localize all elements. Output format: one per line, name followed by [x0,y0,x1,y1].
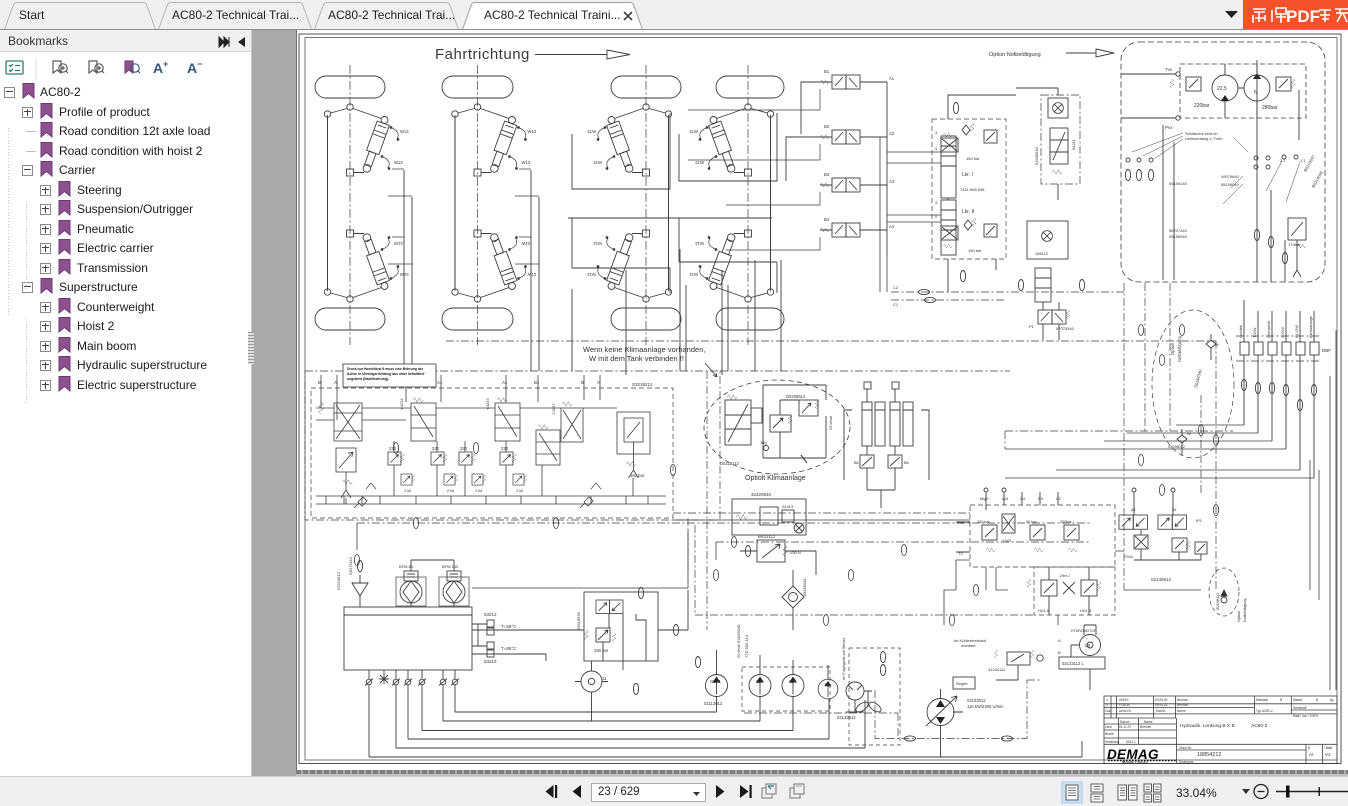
svg-text:02133012: 02133012 [967,698,986,703]
svg-text:53518946: 53518946 [576,611,581,630]
svg-text:TvxPvx: TvxPvx [1165,67,1173,130]
svg-text:Verteilung: Verteilung [1105,740,1119,744]
svg-text:BR23112: BR23112 [758,534,776,539]
svg-text:Zust: Zust [1105,709,1111,713]
svg-text:V50-N: V50-N [790,551,801,555]
svg-text:W: W [1215,342,1219,347]
svg-text:04096012: 04096012 [1168,445,1185,449]
svg-text:Brenner: Brenner [1177,698,1189,702]
svg-text:BFM 160: BFM 160 [442,564,459,569]
svg-text:BFM 80: BFM 80 [399,564,414,569]
svg-text:220bar: 220bar [1194,103,1210,109]
svg-text:#160H: #160H [1119,698,1129,702]
svg-text:Notbeldtigung: Notbeldtigung [1243,599,1247,622]
svg-text:Name: Name [1177,709,1186,713]
svg-text:156112: 156112 [1035,251,1049,256]
svg-text:200 bar: 200 bar [977,520,991,524]
svg-text:4907964055159040 55159140: 4907964055159040 55159140 56707440551590… [1169,158,1306,239]
svg-text:Aend-Nr: Aend-Nr [1119,709,1132,713]
svg-text:32420840: 32420840 [751,492,772,497]
svg-text:02132912: 02132912 [837,715,856,720]
svg-text:−: − [197,59,202,69]
svg-text:Wenn keine Klimaanlage vorhand: Wenn keine Klimaanlage vorhanden, [583,345,705,354]
svg-text:Blatt / von / 100%: Blatt / von / 100% [1293,714,1318,718]
svg-text:W: W [1187,431,1191,436]
svg-text:Option: Option [1237,611,1241,622]
svg-text:montiert: montiert [961,643,976,648]
svg-text:150 bar: 150 bar [966,156,980,161]
svg-text:Datum: Datum [1120,720,1130,724]
svg-text:63A55040: 63A55040 [803,579,807,596]
svg-text:53224512: 53224512 [336,571,341,590]
svg-text:25 l/min: 25 l/min [828,416,833,430]
svg-text:A: A [1058,638,1061,643]
svg-text:Im Folgegerat auf Steuer: Im Folgegerat auf Steuer [842,637,846,680]
svg-text:AC80-2: AC80-2 [1251,723,1268,729]
svg-text:AI: AI [1309,752,1313,757]
svg-text:Optiolt Klimaanlage: Optiolt Klimaanlage [745,475,806,482]
svg-text:00108112: 00108112 [1215,592,1220,610]
svg-text:Mobile Cranes: Mobile Cranes [1122,760,1148,764]
svg-text:4: 4 [1106,698,1108,702]
svg-text:Hydraulik. Lenkung B X B: Hydraulik. Lenkung B X B [1180,723,1235,729]
svg-text:W mit dem Tank verbinden !!: W mit dem Tank verbinden !! [589,354,684,363]
svg-text:D0276112: D0276112 [348,556,353,575]
svg-text:190 bar: 190 bar [594,648,609,653]
svg-text:PDF: PDF [1286,7,1320,26]
svg-text:53438940: 53438940 [1034,146,1039,165]
svg-text:04313: 04313 [782,504,794,509]
svg-text:Y344: Y344 [1124,555,1133,559]
svg-text:Zeich-Nr.: Zeich-Nr. [1179,746,1192,750]
svg-text:kg: kg [1330,698,1334,702]
svg-text:A: A [153,60,163,76]
svg-text:Lieferumfang v. Trofo: Lieferumfang v. Trofo [1185,136,1223,141]
svg-text:P16134: P16134 [1119,703,1130,707]
svg-text:180 bar: 180 bar [630,473,645,478]
svg-text:03.05.00: 03.05.00 [1155,698,1168,702]
svg-text:200bar: 200bar [1060,520,1073,524]
svg-text:02140812: 02140812 [1151,577,1172,582]
svg-text:6312.1: 6312.1 [1126,740,1136,744]
svg-text:01.11.97: 01.11.97 [1119,725,1131,729]
svg-text:B8: B8 [854,461,859,465]
svg-text:230230230230: 230230230230 [389,446,509,451]
svg-text:31244112: 31244112 [988,667,1006,672]
svg-text:Regler: Regler [956,681,968,686]
svg-text:50 bar: 50 bar [1026,520,1038,524]
svg-text:Datum: Datum [1156,709,1166,713]
svg-text:+: + [163,59,168,69]
svg-text:150 bar: 150 bar [968,248,982,253]
svg-text:Brenner: Brenner [1177,703,1189,707]
svg-text:3: 3 [1106,703,1108,707]
svg-text:B: B [1280,698,1282,702]
svg-text:2.5d2.5d2.5d2.5d: 2.5d2.5d2.5d2.5d [404,489,523,493]
svg-text:DBF: DBF [1322,348,1331,353]
svg-text:115 kW/2300 U/min: 115 kW/2300 U/min [967,704,1004,709]
svg-text:P1: P1 [1029,324,1035,329]
svg-text:09.04.22: 09.04.22 [1155,703,1168,707]
svg-text:A: A [187,60,197,76]
svg-text:B8: B8 [904,461,909,465]
svg-text:B: B [1058,650,1061,655]
svg-text:Option Notbeldtigung: Option Notbeldtigung [989,52,1041,58]
svg-text:55144340: 55144340 [1193,368,1203,388]
svg-text:170bar: 170bar [1288,242,1301,247]
svg-text:Lenk: Lenk [1105,725,1112,729]
svg-text:D0238612: D0238612 [786,394,806,399]
svg-text:B: B [1308,746,1310,750]
svg-text:02113012: 02113012 [704,701,723,706]
svg-text:B1B2B3B4 A1A2A3A4: B1B2B3B4 A1A2A3A4 [824,69,895,229]
svg-text:C2: C2 [893,285,899,290]
svg-text:28: 28 [1085,643,1091,648]
svg-text:C1: C1 [893,302,899,307]
svg-text:/ Blatt: / Blatt [1324,746,1332,750]
svg-text:Mg: Mg [761,440,767,445]
svg-text:Klimaanlage: Klimaanlage [1308,315,1313,338]
svg-text:Option: Option [1170,342,1175,355]
svg-text:20 l/min 63A55040: 20 l/min 63A55040 [736,624,741,658]
svg-text:22,5: 22,5 [1217,86,1227,92]
svg-text:Lkr. ILkr. II: Lkr. ILkr. II [962,172,974,215]
svg-text:7421 665 548: 7421 665 548 [960,187,985,192]
svg-text:Notbeldtigung: Notbeldtigung [1177,335,1182,362]
svg-text:B: B [1316,698,1318,702]
svg-text:D0218112: D0218112 [720,461,740,466]
svg-text:S3218212: S3218212 [632,382,653,387]
svg-text:Werkstoff: Werkstoff [1293,706,1306,710]
svg-text:Typ AC80-2: Typ AC80-2 [1256,709,1273,713]
svg-text:Bearb: Bearb [1105,732,1114,736]
svg-text:Masse: Masse [1293,698,1303,702]
svg-text:18854212: 18854212 [1197,752,1221,758]
svg-text:Name: Name [1144,720,1153,724]
svg-text:7TD 900 114: 7TD 900 114 [744,634,749,658]
svg-text:Fahrtrichtung: Fahrtrichtung [435,46,530,63]
svg-text:V1: V1 [1325,752,1331,757]
svg-text:B0214040: B0214040 [1311,170,1325,189]
svg-text:Drehwerk: Drehwerk [1266,321,1271,338]
svg-text:3440: 3440 [935,130,938,219]
svg-text:Y343: Y343 [1002,539,1011,543]
svg-text:T-OW: T-OW [1252,327,1257,338]
svg-text:Brenner: Brenner [1140,725,1152,729]
svg-text:B0216947: B0216947 [1303,154,1317,173]
svg-text:280bar: 280bar [1262,105,1278,111]
svg-text:11: 11 [602,676,607,681]
svg-text:04211: 04211 [1071,138,1076,150]
svg-text:Y4237: Y4237 [551,403,556,415]
svg-text:02133112 L: 02133112 L [1062,661,1084,666]
svg-text:Masstab: Masstab [1256,698,1268,702]
svg-text:Ersetzung: Ersetzung [1179,760,1194,764]
